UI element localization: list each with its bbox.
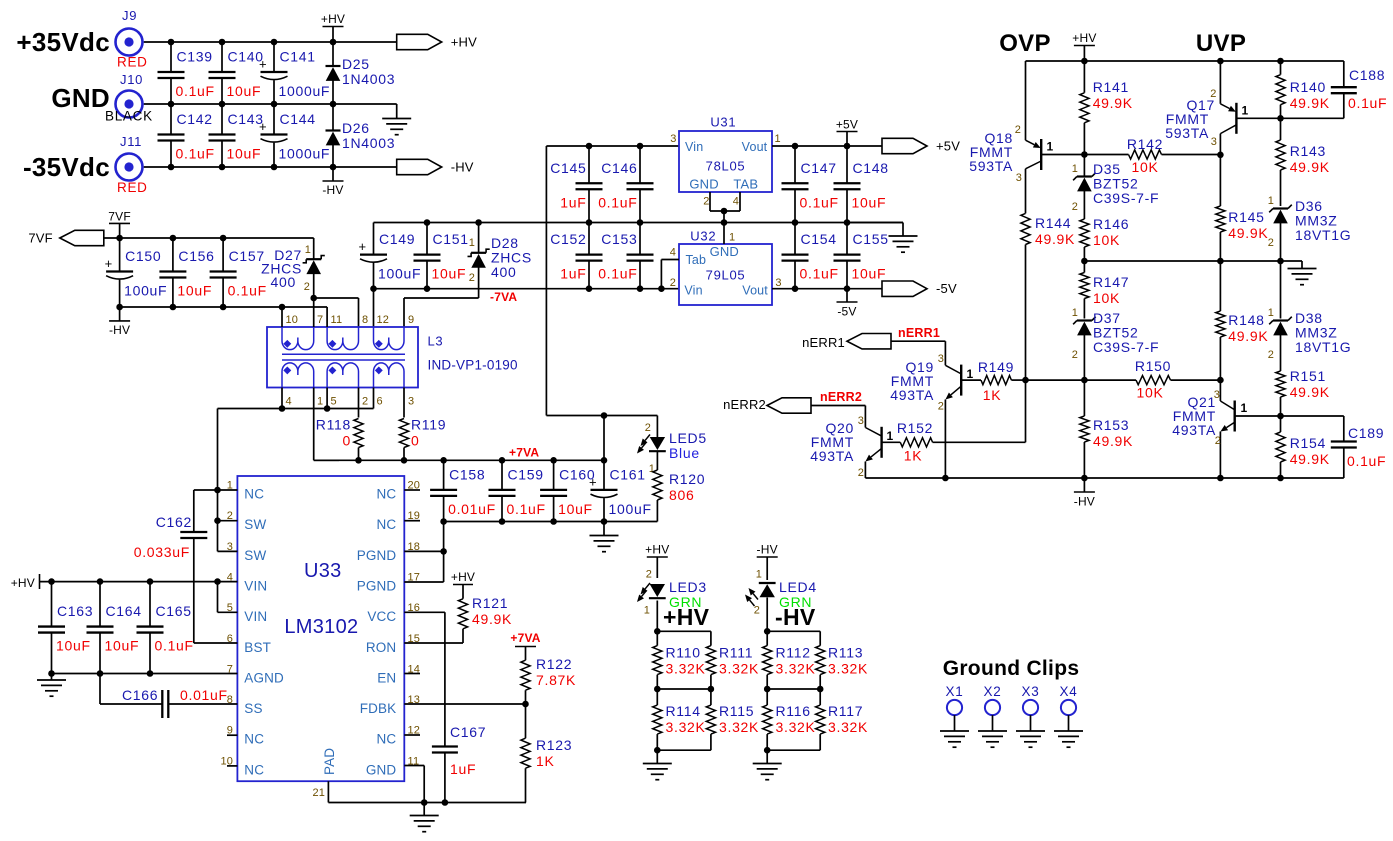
connector J9 (116, 8, 148, 70)
svg-text:J11: J11 (120, 134, 142, 149)
capacitor C165 (137, 582, 194, 674)
capacitor C145 (550, 146, 602, 223)
wire U33 pin5 link (218, 582, 238, 613)
wire SW rail (218, 408, 374, 410)
inductor L3 (267, 327, 518, 388)
svg-text:C157: C157 (229, 248, 265, 264)
wire GND rail (144, 103, 397, 105)
svg-text:R116: R116 (776, 703, 811, 719)
svg-text:3: 3 (670, 133, 676, 145)
svg-text:RON: RON (366, 640, 396, 655)
capacitor C140 (209, 42, 264, 104)
svg-text:1uF: 1uF (560, 194, 586, 210)
svg-text:7VF: 7VF (108, 210, 131, 224)
svg-text:C163: C163 (57, 603, 93, 619)
svg-text:3: 3 (938, 353, 944, 365)
ground near J10 (382, 104, 411, 135)
svg-text:+HV: +HV (451, 35, 477, 50)
svg-text:1K: 1K (536, 753, 555, 769)
svg-text:2: 2 (858, 467, 864, 479)
net flag -HV bottom (322, 167, 343, 197)
wire U32 output (772, 288, 882, 290)
svg-text:C158: C158 (449, 466, 485, 482)
svg-text:3.32K: 3.32K (828, 719, 868, 735)
svg-text:Vout: Vout (742, 140, 768, 154)
svg-text:6: 6 (377, 396, 383, 408)
svg-text:49.9K: 49.9K (1093, 433, 1133, 449)
wire led4 bottom (764, 747, 820, 754)
svg-text:10K: 10K (1093, 232, 1120, 248)
wire pin12 feed (373, 289, 375, 327)
svg-text:C162: C162 (156, 514, 192, 530)
net flag -HV below C150 (109, 307, 130, 337)
label Ground Clips (943, 657, 1080, 680)
svg-text:-HV: -HV (109, 323, 130, 337)
resistor R142 (1084, 136, 1220, 175)
svg-text:10uF: 10uF (852, 194, 887, 210)
svg-text:2: 2 (1015, 124, 1021, 136)
wire OVP row380 left (1026, 379, 1137, 381)
net arrow -5V (882, 281, 957, 296)
svg-text:2: 2 (670, 277, 676, 289)
junction dot led4 top (764, 628, 771, 635)
svg-text:0.1uF: 0.1uF (176, 83, 215, 99)
diode D26 (326, 104, 396, 167)
net flag +HV led3 (645, 543, 669, 579)
diode D35 zener (1072, 155, 1160, 220)
svg-text:1: 1 (644, 605, 650, 617)
svg-text:R146: R146 (1093, 216, 1129, 232)
junction dots GND rail (168, 101, 337, 108)
svg-text:PGND: PGND (357, 578, 397, 593)
resistor R117 (816, 689, 868, 750)
wire L3 pin5 (326, 388, 328, 409)
wire L3 pin10 (281, 307, 283, 327)
svg-text:-HV: -HV (1074, 495, 1095, 509)
connector J11 (116, 134, 148, 195)
svg-text:PAD: PAD (322, 748, 337, 775)
wire +5V in rail (546, 145, 679, 147)
net label +5V (836, 118, 858, 147)
svg-text:GND: GND (710, 244, 739, 259)
ground right of U31 (847, 223, 918, 253)
capacitor C152 (550, 223, 602, 289)
svg-text:SS: SS (244, 701, 262, 716)
ground below led3 (643, 750, 672, 780)
net flag nERR2 (723, 397, 811, 413)
net flag -HV ovp (1074, 478, 1095, 509)
junction dots 7VF rail (116, 235, 226, 242)
diode D28 (468, 223, 532, 299)
resistor R153 (1080, 380, 1133, 478)
IC U33 LM3102 (220, 476, 420, 799)
svg-text:BLACK: BLACK (105, 109, 153, 124)
wire GND mid rail (374, 222, 904, 224)
svg-text:4: 4 (670, 246, 676, 258)
svg-text:1000uF: 1000uF (279, 146, 331, 162)
svg-text:1: 1 (305, 244, 311, 256)
wire -7VA rail (374, 288, 680, 290)
resistor R110 (653, 631, 706, 689)
svg-text:+5V: +5V (936, 139, 960, 154)
LED LED4 (745, 569, 817, 632)
svg-text:UVP: UVP (1196, 30, 1246, 57)
svg-text:1: 1 (1241, 401, 1248, 415)
svg-text:X1: X1 (946, 684, 964, 699)
net label nERR2 (820, 390, 862, 404)
junction dots led4 mid (764, 686, 824, 693)
svg-text:R142: R142 (1127, 136, 1163, 152)
capacitor C189 (1281, 416, 1387, 478)
svg-text:LM3102: LM3102 (284, 616, 358, 638)
svg-text:Vout: Vout (742, 283, 768, 297)
svg-text:C188: C188 (1349, 67, 1385, 83)
resistor R150 (1135, 358, 1221, 401)
svg-text:2: 2 (1210, 88, 1216, 100)
svg-text:C159: C159 (508, 466, 544, 482)
resistor R118 (316, 388, 363, 461)
svg-text:3.32K: 3.32K (666, 719, 706, 735)
resistor R154 (1276, 416, 1330, 478)
svg-text:RED: RED (117, 180, 148, 195)
svg-text:12: 12 (377, 314, 390, 326)
svg-text:18VT1G: 18VT1G (1295, 227, 1351, 243)
resistor R140 (1276, 61, 1330, 118)
resistor R145 (1216, 155, 1269, 261)
svg-text:1: 1 (729, 231, 735, 243)
svg-text:1: 1 (317, 396, 323, 408)
wire D27 to pin8 (314, 298, 359, 327)
resistor R122 (510, 631, 576, 704)
resistor R112 (763, 631, 816, 689)
svg-text:1N4003: 1N4003 (342, 71, 395, 87)
junction dots -5V out (792, 285, 851, 292)
svg-text:R144: R144 (1035, 215, 1071, 231)
svg-text:3.32K: 3.32K (776, 661, 816, 677)
svg-text:LED4: LED4 (779, 579, 817, 595)
wire U33 pin11 GND (404, 766, 424, 803)
svg-text:11: 11 (331, 314, 343, 326)
svg-text:1K: 1K (983, 387, 1002, 403)
ground below U33 (410, 803, 439, 832)
wire OVP bottom rail (865, 477, 1343, 479)
svg-text:Tab: Tab (686, 253, 707, 267)
wire U33 pin2 stub (214, 517, 237, 524)
junction dots OVP top rail (1081, 58, 1284, 65)
svg-text:49.9K: 49.9K (1290, 95, 1330, 111)
wire U33 pin10 stub (227, 765, 237, 767)
junction dot Q18 base (1081, 151, 1088, 158)
svg-text:OVP: OVP (999, 30, 1051, 57)
svg-text:1: 1 (1242, 104, 1249, 118)
svg-text:2: 2 (754, 605, 760, 617)
capacitor C160 (540, 460, 595, 521)
svg-text:3.32K: 3.32K (719, 661, 759, 677)
svg-text:R119: R119 (411, 417, 446, 433)
wire U32 gnd pin (723, 223, 725, 245)
IC U31 78L05 (670, 115, 781, 208)
svg-text:8: 8 (362, 314, 368, 326)
junction dots VIN rail (48, 578, 221, 585)
svg-text:2: 2 (646, 569, 652, 581)
svg-text:C155: C155 (853, 231, 889, 247)
ground below C163 (37, 674, 66, 697)
svg-text:R148: R148 (1228, 312, 1264, 328)
svg-text:C139: C139 (177, 49, 213, 65)
svg-text:0.1uF: 0.1uF (598, 194, 637, 210)
svg-text:+7VA: +7VA (509, 446, 539, 460)
wire 7VF flag to rail (104, 237, 120, 239)
wire D28 anode to pin9 (404, 298, 479, 327)
wire L3 pin11 (326, 307, 328, 327)
svg-text:+35Vdc: +35Vdc (16, 27, 110, 57)
ground OVP (1288, 261, 1317, 285)
junction dots led3 mid (654, 686, 714, 693)
transistor Q21 (1172, 380, 1280, 478)
net flag +HV left (11, 574, 40, 590)
svg-text:79L05: 79L05 (706, 267, 746, 282)
resistor R111 (657, 631, 759, 689)
svg-text:806: 806 (669, 487, 694, 503)
svg-text:1: 1 (1268, 307, 1274, 319)
resistor R141 (1080, 61, 1133, 155)
junction dots AGND rail (48, 670, 153, 677)
capacitor C143 (209, 104, 264, 167)
svg-text:R110: R110 (666, 645, 701, 661)
svg-text:-HV: -HV (775, 604, 816, 630)
svg-text:1N4003: 1N4003 (342, 135, 395, 151)
svg-text:nERR2: nERR2 (820, 390, 862, 404)
wire L3 pin1 to +7VA (314, 388, 339, 461)
svg-text:9: 9 (408, 314, 414, 326)
svg-text:493TA: 493TA (1172, 422, 1216, 438)
capacitor C158 (430, 460, 496, 521)
svg-text:3: 3 (1214, 389, 1220, 401)
label GND (51, 83, 110, 113)
svg-text:100uF: 100uF (378, 266, 421, 282)
connector J10 (105, 72, 153, 124)
svg-text:nERR2: nERR2 (723, 397, 766, 412)
wire -HV rail below C150 (120, 306, 328, 308)
svg-text:2: 2 (1072, 349, 1078, 361)
wire U33 pin12 stub (404, 734, 420, 736)
junction dots U33 gnd rail (421, 799, 448, 806)
resistor R121 (451, 570, 512, 643)
svg-text:nERR1: nERR1 (802, 335, 845, 350)
wire U33 pin1 stub (214, 487, 237, 494)
svg-text:R145: R145 (1228, 209, 1264, 225)
svg-text:0.1uF: 0.1uF (800, 194, 839, 210)
wire L3 pin6 (373, 388, 375, 409)
junction dots OVP mid rail (1081, 258, 1284, 265)
svg-text:R114: R114 (666, 703, 701, 719)
capacitor C162 (134, 490, 238, 643)
resistor R147 (1080, 261, 1129, 319)
resistor R148 (1216, 261, 1269, 380)
LED LED5 (637, 416, 707, 476)
svg-text:3: 3 (408, 396, 414, 408)
svg-text:Vin: Vin (684, 283, 702, 297)
diode D37 zener (1072, 307, 1160, 380)
svg-text:3: 3 (775, 277, 781, 289)
diode D25 (326, 42, 396, 104)
svg-text:-HV: -HV (451, 160, 474, 175)
wire -35Vdc rail (144, 166, 397, 168)
capacitor C144 (259, 104, 330, 167)
svg-text:PGND: PGND (357, 548, 397, 563)
resistor R146 (1080, 216, 1129, 261)
svg-text:5: 5 (331, 396, 337, 408)
net label 7VF (108, 210, 131, 239)
net label +7VA (509, 446, 539, 460)
svg-text:10K: 10K (1136, 385, 1163, 401)
wire U33 pin3 stub (218, 550, 238, 552)
svg-text:10uF: 10uF (227, 83, 262, 99)
ground below C161 (590, 522, 619, 552)
capacitor C139 (158, 42, 215, 104)
label -HV big (775, 604, 816, 630)
svg-text:Blue: Blue (669, 445, 700, 461)
capacitor C153 (598, 223, 653, 289)
svg-text:EN: EN (377, 670, 396, 685)
svg-text:49.9K: 49.9K (1290, 384, 1330, 400)
IC U32 79L05 (670, 228, 782, 305)
net arrow +5V (882, 138, 960, 153)
svg-text:C154: C154 (801, 231, 837, 247)
capacitor C157 (210, 238, 267, 307)
svg-text:100uF: 100uF (609, 501, 652, 517)
svg-text:1: 1 (775, 133, 781, 145)
net arrow +HV out (397, 34, 477, 49)
svg-text:NC: NC (244, 487, 264, 502)
resistor R113 (767, 631, 868, 689)
wire U33 SW column (217, 409, 219, 552)
svg-text:C153: C153 (601, 231, 637, 247)
svg-text:-HV: -HV (322, 183, 343, 197)
svg-text:VCC: VCC (367, 609, 396, 624)
svg-text:2: 2 (362, 396, 368, 408)
net flag +HV top (321, 12, 345, 42)
svg-text:-HV: -HV (757, 543, 778, 557)
svg-text:49.9K: 49.9K (1228, 225, 1268, 241)
svg-text:C148: C148 (853, 160, 889, 176)
svg-text:C141: C141 (280, 49, 316, 65)
svg-text:+: + (105, 256, 113, 271)
svg-text:VIN: VIN (244, 609, 267, 624)
svg-text:+: + (589, 474, 597, 489)
label UVP (1196, 30, 1246, 57)
net flag +HV ovp (1072, 31, 1096, 61)
pin labels L3 top (286, 314, 415, 326)
capacitor C142 (158, 104, 215, 167)
svg-text:VIN: VIN (244, 578, 267, 593)
junction dot D27 anode (310, 295, 317, 302)
svg-text:GND: GND (366, 762, 397, 777)
svg-text:R141: R141 (1093, 79, 1129, 95)
transistor Q17 (1165, 61, 1280, 155)
svg-text:2: 2 (304, 281, 310, 293)
capacitor C155 (834, 223, 889, 289)
net label -7VA (490, 290, 517, 304)
resistor R120 (653, 466, 705, 522)
svg-text:49.9K: 49.9K (1290, 451, 1330, 467)
label +HV big (663, 604, 710, 630)
svg-text:2: 2 (469, 272, 475, 284)
net label nERR1 (898, 326, 940, 340)
svg-text:0.1uF: 0.1uF (1348, 95, 1387, 111)
svg-text:C39S-7-F: C39S-7-F (1093, 190, 1159, 206)
svg-text:Vin: Vin (685, 140, 703, 154)
svg-text:0.1uF: 0.1uF (800, 266, 839, 282)
svg-text:+5V: +5V (836, 118, 858, 132)
wire OVP top rail (1026, 60, 1344, 62)
resistor R114 (653, 689, 706, 750)
svg-text:C142: C142 (177, 111, 213, 127)
svg-text:R149: R149 (978, 359, 1014, 375)
transistor Q18 (969, 61, 1084, 184)
diode D27 (261, 238, 325, 298)
svg-text:R153: R153 (1093, 417, 1129, 433)
svg-text:100uF: 100uF (124, 283, 167, 299)
svg-text:3: 3 (1016, 172, 1022, 184)
svg-text:+HV: +HV (663, 604, 710, 630)
junction dots +7VA rail (355, 457, 607, 464)
svg-text:NC: NC (244, 762, 264, 777)
svg-text:R150: R150 (1135, 358, 1171, 374)
svg-text:NC: NC (376, 732, 396, 747)
svg-text:593TA: 593TA (969, 158, 1013, 174)
capacitor C150 (105, 238, 168, 307)
svg-text:1000uF: 1000uF (279, 83, 331, 99)
svg-text:R118: R118 (316, 417, 351, 433)
capacitor C146 (598, 146, 653, 223)
svg-text:U32: U32 (690, 228, 716, 243)
svg-text:FDBK: FDBK (360, 701, 397, 716)
svg-text:RED: RED (117, 55, 148, 70)
junction dots PGND rail (440, 518, 607, 525)
svg-text:L3: L3 (428, 334, 444, 349)
ground clip X1 (940, 684, 969, 747)
svg-text:R115: R115 (719, 703, 754, 719)
svg-text:R143: R143 (1290, 143, 1326, 159)
pin labels L3 bottom (286, 396, 415, 408)
svg-text:C167: C167 (450, 724, 486, 740)
svg-text:R123: R123 (536, 737, 572, 753)
resistor R151 (1276, 357, 1330, 416)
wire U31 gnd pins (710, 192, 740, 223)
ground clip X2 (978, 684, 1007, 747)
svg-text:1: 1 (1072, 307, 1078, 319)
junction dot led3 top (654, 628, 661, 635)
svg-text:C189: C189 (1348, 425, 1384, 441)
svg-text:C146: C146 (601, 160, 637, 176)
svg-text:+HV: +HV (451, 570, 475, 584)
net flag 7VF arrow (28, 230, 103, 245)
svg-text:3.32K: 3.32K (776, 719, 816, 735)
svg-text:D25: D25 (342, 56, 370, 72)
wire U33 pin9 stub (227, 734, 237, 736)
svg-text:1: 1 (887, 429, 894, 443)
svg-text:C150: C150 (125, 248, 161, 264)
LED LED3 (637, 569, 707, 632)
label -35Vdc (23, 152, 110, 182)
svg-text:GND: GND (51, 83, 110, 113)
svg-text:C149: C149 (379, 231, 415, 247)
svg-text:1: 1 (469, 237, 475, 249)
svg-text:1K: 1K (904, 448, 923, 464)
svg-text:R113: R113 (828, 645, 863, 661)
junction dot Q21 base (1277, 413, 1284, 420)
